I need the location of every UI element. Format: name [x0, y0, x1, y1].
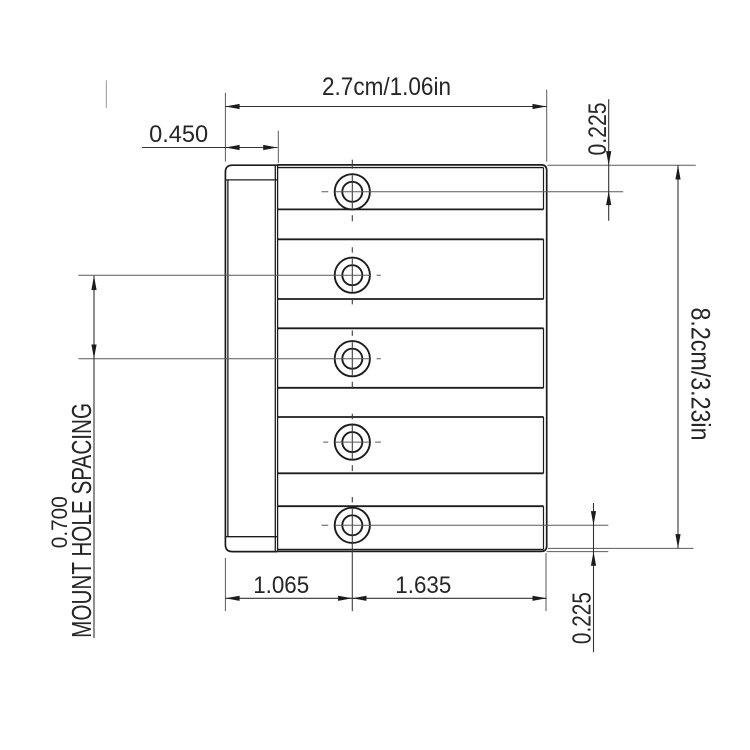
saddle band line B8	[277, 505, 543, 507]
hole H1 outer circle	[335, 174, 370, 209]
hole H1 horizontal center line (left dash + long right extension)	[322, 191, 624, 193]
dimension 8.2cm/3.23in: bottom arrowhead (points down)	[675, 534, 680, 548]
dimension top 0.225: dimension line	[608, 99, 610, 221]
plate left edge line	[277, 165, 279, 552]
dimension bottom 0.225: dimension line	[593, 503, 595, 652]
hole H5 outer circle	[335, 508, 370, 543]
svg-text:1.635: 1.635	[395, 572, 451, 599]
plate bottom inner edge line	[277, 548, 543, 550]
dimension 0.700 mount hole spacing: dimension line	[93, 276, 95, 638]
saddle band line B1	[277, 208, 543, 210]
hole H4 inner circle	[342, 432, 362, 452]
plate top inner edge line	[277, 167, 543, 169]
dimension 0.700: upper arrowhead (points up)	[91, 276, 96, 290]
svg-text:2.7cm/1.06in: 2.7cm/1.06in	[322, 73, 451, 101]
dimension 1.635: right arrowhead	[533, 596, 547, 601]
dimension 2.7cm/1.06in: dimension line	[225, 106, 546, 108]
stray artifact mark top-left	[105, 80, 107, 108]
flange inner left edge line	[227, 180, 229, 537]
svg-text:0.450: 0.450	[149, 121, 208, 148]
dimension 8.2cm/3.23in: top arrowhead (points up)	[675, 165, 680, 179]
flange bottom inner line	[226, 536, 278, 538]
dimension 1.065/1.635: extension line right	[545, 553, 547, 611]
saddle band line B7	[277, 472, 543, 474]
dimension 1.065: right arrowhead (at hole center line)	[338, 596, 352, 601]
plate right inner edge line (hole-band segments)	[543, 168, 545, 550]
flange top inner line	[226, 179, 278, 181]
plate body outer outline	[277, 165, 546, 552]
body outer-bottom extension line for 0.225	[547, 551, 609, 553]
dimension top 0.225: upper arrowhead (points down)	[606, 151, 611, 165]
svg-text:0.225: 0.225	[569, 592, 597, 644]
hole H4 horizontal center line (short dashes)	[323, 441, 381, 443]
hole H4 outer circle	[335, 425, 370, 460]
dimension 0.450: extension line right	[277, 131, 279, 163]
hole H1 inner circle	[342, 182, 362, 202]
hole H3 horizontal center line (long left extension)	[78, 358, 381, 360]
dimension 2.7cm/1.06in: extension line right	[546, 90, 548, 162]
saddle band line B6	[277, 416, 543, 418]
dimension 1.065: left arrowhead	[225, 596, 239, 601]
dimension 1.065/1.635: dimension line	[225, 597, 546, 599]
hole H5 inner circle	[342, 515, 362, 535]
dimension top 0.225: lower arrowhead (points up)	[606, 191, 611, 205]
body top extension line (right)	[548, 164, 696, 166]
saddle band line B2	[277, 238, 543, 240]
dimension 0.450: dimension line with tail	[142, 147, 277, 149]
hole H5 horizontal center line (right extension)	[322, 524, 609, 526]
dimension 0.450: right arrowhead	[263, 145, 277, 150]
svg-text:1.065: 1.065	[253, 572, 309, 599]
hole H2 outer circle	[335, 258, 370, 293]
hole H3 outer circle	[335, 341, 370, 376]
saddle band line B5	[277, 387, 543, 389]
hole H3 inner circle	[342, 349, 362, 369]
flange inner right edge line	[274, 165, 276, 551]
dimension bottom 0.225: upper arrowhead (points down)	[591, 511, 596, 525]
hole H2 inner circle	[342, 265, 362, 285]
dimension 8.2cm/3.23in: dimension line	[677, 165, 679, 548]
mounting flange (left strip) outer outline	[225, 165, 277, 551]
saddle band line B3	[277, 298, 543, 300]
dimension 1.635: left arrowhead (at hole center line)	[352, 596, 366, 601]
svg-text:MOUNT HOLE SPACING: MOUNT HOLE SPACING	[66, 403, 97, 638]
dimension 1.065/1.635: extension line left	[224, 558, 226, 611]
dimension 2.7cm/1.06in: extension line left	[224, 93, 226, 162]
dimension bottom 0.225: lower arrowhead (points up)	[591, 552, 596, 566]
dimension 0.450: left arrowhead	[225, 145, 239, 150]
body bottom extension line (right)	[548, 547, 694, 549]
vertical center line through holes	[351, 160, 353, 611]
dimension 0.700: lower arrowhead (points down)	[91, 345, 96, 359]
svg-text:8.2cm/3.23in: 8.2cm/3.23in	[686, 308, 716, 441]
dimension 2.7cm/1.06in: left arrowhead	[225, 104, 239, 109]
svg-text:0.225: 0.225	[584, 103, 612, 156]
hole H2 horizontal center line (long left extension)	[78, 274, 381, 276]
dimension 2.7cm/1.06in: right arrowhead	[533, 104, 547, 109]
saddle band line B4	[277, 327, 543, 329]
